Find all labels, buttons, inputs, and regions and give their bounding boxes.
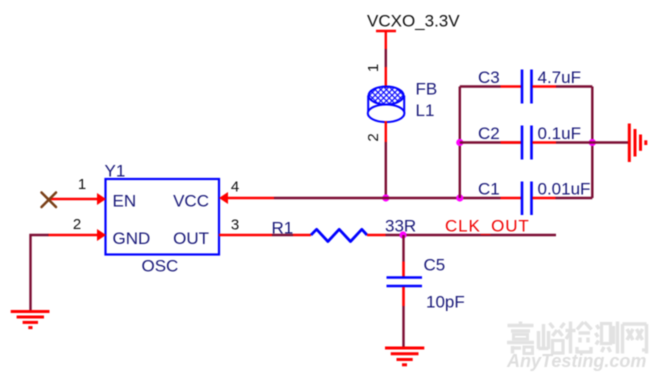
capacitor C5 [387,262,423,307]
wire [386,234,557,236]
svg-text:10pF: 10pF [426,293,465,312]
capacitor C2 [460,126,593,160]
svg-text:L1: L1 [416,101,435,120]
svg-text:C1: C1 [478,180,500,199]
svg-text:1: 1 [365,64,382,72]
svg-text:R1: R1 [272,219,294,238]
junction [399,231,406,238]
svg-text:GND: GND [113,229,151,248]
wire [272,234,293,236]
watermark char wang [623,324,647,354]
svg-text:FB: FB [416,80,438,99]
ground [11,312,50,328]
pin 1 (EN) [49,193,106,205]
wire [556,197,593,199]
wire [592,141,628,143]
capacitor C1 [501,182,556,216]
watermark char ce [596,322,618,354]
svg-text:OSC: OSC [142,257,179,276]
wire [31,235,49,311]
watermark char yu [539,323,565,353]
wire [385,142,387,198]
svg-text:VCC: VCC [173,192,209,211]
ground (rotated) [629,124,646,163]
svg-text:2: 2 [365,133,382,141]
svg-text:C2: C2 [478,124,500,143]
svg-text:OUT: OUT [173,229,209,248]
wire [385,49,387,67]
wire left bus [459,87,461,199]
svg-text:0.1uF: 0.1uF [538,124,581,143]
svg-text:4: 4 [231,179,239,196]
power bar VCXO_3.3V [376,31,396,49]
junction [456,194,463,201]
wire right bus [591,87,593,199]
resistor R1 [293,229,386,241]
pin 2 of L1 [385,121,387,142]
svg-text:C3: C3 [478,68,500,87]
pin 1 of L1 [385,67,387,88]
no-ERC cross [42,193,57,208]
pin 3 (OUT) [219,234,272,237]
svg-text:VCXO_3.3V: VCXO_3.3V [367,12,460,31]
svg-text:CLK_OUT: CLK_OUT [445,217,530,236]
svg-text:3: 3 [231,217,239,234]
svg-text:AnyTesting.com: AnyTesting.com [506,351,646,371]
svg-text:EN: EN [113,192,137,211]
svg-text:2: 2 [73,216,81,233]
junction [589,139,596,146]
wire [402,306,404,348]
watermark [506,322,647,372]
capacitor C3 [460,70,593,104]
watermark char jian [566,322,593,354]
svg-text:Y1: Y1 [105,162,126,181]
wire [402,235,404,262]
svg-text:1: 1 [78,176,86,193]
ground [385,348,424,365]
pin 2 (GND) [48,229,106,241]
watermark char jia [507,322,534,354]
svg-text:0.01uF: 0.01uF [538,180,591,199]
svg-text:4.7uF: 4.7uF [538,68,581,87]
oscillator Y1 box [106,179,220,255]
junction [382,194,389,201]
junction [456,139,463,146]
wire [274,197,501,199]
svg-text:C5: C5 [424,256,446,275]
ferrite bead L1 [368,87,405,123]
pin 4 (VCC) [219,192,274,204]
